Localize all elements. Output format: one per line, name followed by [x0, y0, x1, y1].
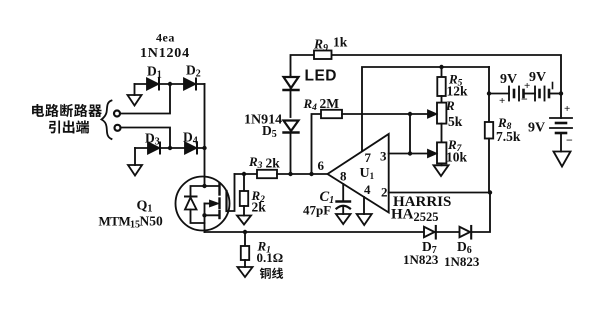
- node: D1-D2 junction: [168, 82, 172, 86]
- LED D (top of chain): [284, 75, 299, 117]
- diode D3: [135, 143, 205, 154]
- label R 5k: [445, 98, 463, 129]
- svg-text:2k: 2k: [252, 200, 267, 215]
- wire: pin 2 line to right vertical: [389, 192, 490, 194]
- svg-text:MTM: MTM: [99, 214, 131, 229]
- label 4ea 1N1204: [140, 31, 190, 62]
- label D1: [147, 64, 162, 81]
- wire: V+ rail corner down through battery junction and R8: [488, 67, 490, 122]
- wire: D1 anode down to ground: [134, 84, 136, 95]
- label D7 1N823: [403, 239, 439, 267]
- svg-text:4: 4: [364, 182, 371, 197]
- node: D5 junction on pin6 line: [288, 172, 292, 176]
- capacitor C1: [337, 184, 351, 214]
- svg-text:1k: 1k: [333, 35, 348, 50]
- label D2: [186, 63, 201, 80]
- svg-text:1N1204: 1N1204: [140, 46, 190, 61]
- ground (below pin 4): [357, 214, 372, 225]
- svg-text:LED: LED: [305, 68, 338, 85]
- wire: R3 to op-amp pin 6: [277, 173, 328, 175]
- svg-text:10k: 10k: [446, 150, 468, 165]
- label R3 2k: [248, 154, 280, 171]
- svg-text:2M: 2M: [320, 96, 340, 111]
- wire: right vertical down to D6 line: [472, 193, 491, 233]
- diode D7 1N823: [424, 226, 459, 239]
- svg-text:9V: 9V: [528, 121, 545, 136]
- wire: R7 bottom to ground: [441, 163, 443, 165]
- ground (left of D1): [128, 95, 142, 106]
- battery B2 9V (horizontal): [535, 87, 561, 101]
- svg-text:12k: 12k: [447, 84, 469, 99]
- node: D3-D4 junction: [168, 146, 172, 150]
- svg-text:2: 2: [381, 185, 388, 200]
- label R7 10k: [446, 137, 468, 165]
- svg-text:7: 7: [365, 150, 372, 165]
- node: junction R4/vertical: [408, 112, 412, 116]
- label pin numbers and U1: [318, 149, 388, 200]
- diode D1: [135, 79, 205, 90]
- wire: pin 3 to R7 wiper: [389, 153, 430, 155]
- wire: bottom rail from MOSFET source to D7: [205, 231, 425, 233]
- svg-text:0.1Ω: 0.1Ω: [257, 250, 284, 265]
- resistor R9: [314, 51, 332, 60]
- svg-text:47pF: 47pF: [303, 203, 331, 218]
- svg-text:+: +: [564, 103, 570, 115]
- diode D6 1N823: [460, 226, 472, 239]
- label R9 1k: [313, 35, 348, 55]
- node: R2 junction: [242, 172, 246, 176]
- ground (below R7): [434, 165, 449, 176]
- diode D2: [184, 79, 196, 90]
- label LED: [305, 68, 338, 85]
- svg-text:+: +: [499, 95, 505, 107]
- ground (below R2): [237, 216, 251, 225]
- polarity tick right of B2: [552, 83, 554, 89]
- svg-text:R: R: [445, 98, 455, 113]
- label 1N914 D5: [244, 113, 282, 141]
- svg-text:6: 6: [318, 158, 325, 173]
- label 9V 9V and polarity: [499, 70, 546, 107]
- label R5 12k: [447, 72, 469, 99]
- wire: pin 4 down to ground: [363, 197, 365, 214]
- label R2 2k: [251, 188, 267, 215]
- svg-text:N50: N50: [140, 214, 163, 229]
- wire: D3 anode down to ground: [134, 148, 136, 165]
- diode D4: [185, 143, 197, 154]
- wire: gate line from MOSFET hook to op-amp pin6: [235, 173, 258, 175]
- wire: pin 7 up to V+ rail: [362, 67, 489, 151]
- wire: top rail from LED corner through R9 to top-right corner: [291, 55, 562, 94]
- ground (below R1): [238, 267, 253, 277]
- svg-text:+: +: [524, 80, 530, 92]
- svg-text:8: 8: [340, 169, 347, 184]
- label Q1 MTM 15N50: [99, 199, 163, 231]
- wire: terminal 2 to D3-D4 junction: [120, 128, 171, 149]
- wire: terminal 1 to D1-D2 junction: [119, 84, 170, 114]
- node: R5 top junction: [439, 65, 443, 69]
- node: D4 to drain junction: [202, 146, 206, 150]
- svg-text:15: 15: [130, 220, 140, 231]
- node: battery row left junction: [487, 91, 491, 95]
- label R1 0.1ohm copper: [257, 239, 284, 279]
- node: R1 junction: [243, 230, 247, 234]
- svg-text:9V: 9V: [500, 72, 517, 87]
- potentiometer R 5k: [428, 96, 446, 124]
- transistor Q1 MOSFET: [176, 174, 235, 232]
- label D6 1N823: [444, 239, 480, 269]
- wire: vertical connecting R4 line to pin3 line: [409, 114, 411, 154]
- node: pin2/R8 junction: [488, 190, 492, 194]
- node: junction pin3/vertical: [408, 151, 412, 155]
- ground (below C1): [336, 214, 351, 224]
- label R4 2M: [303, 96, 340, 113]
- resistor R2: [240, 174, 248, 216]
- potentiometer R7 10k: [428, 124, 446, 164]
- resistor R4: [312, 110, 431, 174]
- label 9V + -: [528, 103, 573, 147]
- node: battery row right junction: [559, 91, 563, 95]
- svg-text:−: −: [521, 92, 528, 106]
- label HARRIS HA2525: [391, 194, 451, 224]
- svg-text:4ea: 4ea: [156, 31, 175, 45]
- svg-text:5k: 5k: [448, 114, 463, 129]
- ground (below battery B3): [554, 152, 571, 167]
- svg-text:9V: 9V: [529, 70, 546, 85]
- resistor R3: [257, 170, 277, 178]
- label circuit-breaker terminals (Chinese): [32, 101, 111, 140]
- svg-text:−: −: [566, 133, 573, 147]
- terminal 2: [115, 125, 121, 131]
- resistor R5: [437, 67, 445, 96]
- diode D5 1N914: [284, 121, 299, 175]
- ground (left of D3): [128, 165, 142, 176]
- battery B1 9V (horizontal): [489, 87, 535, 101]
- label R8 7.5k: [496, 115, 521, 144]
- svg-text:2k: 2k: [266, 156, 281, 171]
- label D3: [145, 131, 160, 148]
- svg-text:3: 3: [380, 149, 387, 164]
- svg-text:1N823: 1N823: [403, 252, 439, 267]
- svg-text:7.5k: 7.5k: [496, 129, 521, 144]
- battery B3 9V (vertical): [550, 94, 572, 152]
- terminal 1: [114, 111, 120, 117]
- label D4: [183, 130, 198, 147]
- resistor R8: [485, 122, 493, 193]
- resistor R1: [241, 232, 249, 267]
- svg-text:HA2525: HA2525: [391, 207, 439, 225]
- label C1 47pF: [303, 189, 334, 218]
- wire: D2/D4 cathodes to MOSFET drain: [204, 84, 206, 177]
- op-amp U1: [328, 134, 389, 213]
- svg-text:1N823: 1N823: [444, 254, 480, 269]
- node: R4 junction on pin6 line: [309, 172, 313, 176]
